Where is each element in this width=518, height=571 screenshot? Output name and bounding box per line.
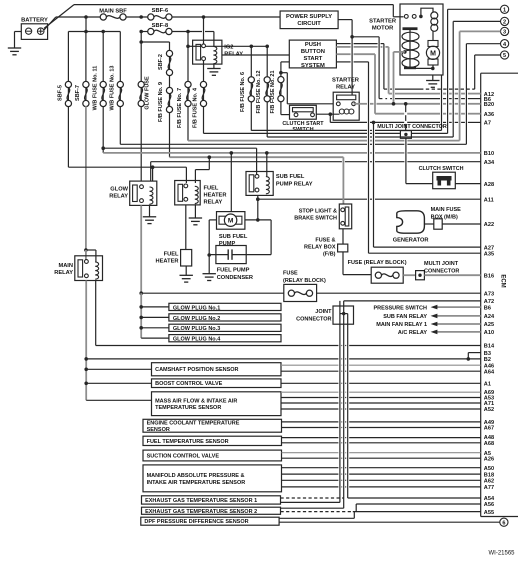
svg-text:SBF-6: SBF-6 <box>152 8 168 14</box>
wire B10 row <box>103 152 367 154</box>
svg-text:F/B FUSE No. 7: F/B FUSE No. 7 <box>177 88 183 128</box>
wire SBF-5 row <box>68 166 186 168</box>
node junction y17 x203 <box>202 15 206 19</box>
svg-text:A27: A27 <box>484 245 494 251</box>
svg-text:A28: A28 <box>484 182 494 188</box>
svg-text:2: 2 <box>503 20 506 26</box>
wire x86 drop <box>85 17 87 32</box>
node connector circle 1 <box>501 5 509 13</box>
wire solenoid to field coil <box>421 8 433 16</box>
sensor BOOST CONTROL VALVE <box>152 379 282 388</box>
svg-text:A56: A56 <box>484 502 494 508</box>
component FUEL HEATER <box>181 250 192 267</box>
node starter motor bottom junction <box>431 67 435 71</box>
fuse SBF-2 <box>166 50 172 56</box>
wire A36 row <box>375 113 404 115</box>
wire sub relay output <box>257 195 259 220</box>
wire main relay contact pin feed <box>85 250 87 260</box>
svg-text:A36: A36 <box>484 112 494 118</box>
svg-text:ENGINE COOLANT TEMPERATURE: ENGINE COOLANT TEMPERATURE <box>147 420 240 426</box>
node connector circle 4 <box>501 40 509 48</box>
svg-text:EXHAUST GAS TEMPERATURE SENSOR: EXHAUST GAS TEMPERATURE SENSOR 2 <box>145 509 257 515</box>
wire push line 1 to circle 5 <box>384 88 387 90</box>
wire F/B box to fuse relay block <box>342 252 344 275</box>
node junction y17 x141 <box>139 15 143 19</box>
node junction pump right <box>256 218 260 222</box>
connector FUSE & RELAY BOX (F/B) <box>338 244 348 252</box>
svg-text:MOTOR: MOTOR <box>372 26 394 32</box>
wire push line 2 <box>336 46 350 48</box>
svg-text:MULTI JOINT CONNECTOR: MULTI JOINT CONNECTOR <box>377 124 447 130</box>
svg-text:GLOW PLUG No.4: GLOW PLUG No.4 <box>173 337 221 343</box>
wire DPF to circle 6 <box>279 521 500 523</box>
svg-text:M: M <box>430 50 436 57</box>
svg-text:A1: A1 <box>484 382 491 388</box>
svg-text:RELAY: RELAY <box>336 85 355 91</box>
wire boost feed <box>86 382 151 384</box>
node junction camshaft feed <box>84 368 88 372</box>
svg-text:SUCTION CONTROL VALVE: SUCTION CONTROL VALVE <box>147 454 220 460</box>
svg-text:HEATER: HEATER <box>156 259 179 265</box>
node ECM bus <box>480 73 482 516</box>
svg-text:BATTERY: BATTERY <box>21 18 48 24</box>
svg-text:B14: B14 <box>484 344 495 350</box>
svg-text:MAIN FUSE: MAIN FUSE <box>431 207 462 213</box>
node junction F/B9 fuel heater branch <box>208 155 212 159</box>
svg-text:A77: A77 <box>484 485 494 491</box>
ground IG2 relay <box>207 69 220 76</box>
svg-text:A24: A24 <box>484 314 495 320</box>
wire F/B6 row to starter case <box>251 129 367 131</box>
relay GLOW RELAY <box>130 181 157 205</box>
wire MJC to circle1 <box>411 132 447 134</box>
connector MULTI JOINT CONNECTOR <box>400 131 411 139</box>
svg-text:A7: A7 <box>484 121 491 127</box>
fuse GLOW FUSE <box>138 81 144 87</box>
relay SUB FUEL PUMP RELAY <box>246 172 273 196</box>
node junction boost feed <box>84 382 88 386</box>
svg-text:RELAY: RELAY <box>54 270 73 276</box>
svg-text:B10: B10 <box>484 151 494 157</box>
wire F/B FUSE No.12 column <box>266 46 268 77</box>
svg-text:GLOW PLUG No.2: GLOW PLUG No.2 <box>173 316 220 322</box>
wire GLOW FUSE column <box>140 42 142 82</box>
wire main relay coil feed <box>86 249 96 251</box>
svg-text:CONNECTOR: CONNECTOR <box>296 317 331 323</box>
wire A11 row <box>258 198 367 200</box>
wire power supply to starter relay <box>338 19 352 21</box>
wire W/B FUSE No.13 column <box>119 32 121 82</box>
svg-text:A34: A34 <box>484 160 495 166</box>
wire A72 row <box>344 300 481 302</box>
wire field coil to motor <box>432 31 434 40</box>
svg-text:F/B FUSE No. 9: F/B FUSE No. 9 <box>158 82 164 122</box>
wire glow relay output <box>140 205 142 293</box>
wire glow bus <box>141 292 284 294</box>
fuse FUSE (RELAY BLOCK) left <box>284 284 317 301</box>
node junction y46.3 x251 <box>250 45 254 49</box>
wire starter relay to solenoid <box>393 52 395 104</box>
wire SUB FAN RELAY row <box>437 315 481 317</box>
svg-text:FUEL: FUEL <box>204 186 219 192</box>
svg-text:A22: A22 <box>484 222 494 228</box>
svg-text:MANIFOLD ABSOLUTE PRESSURE &: MANIFOLD ABSOLUTE PRESSURE & <box>147 473 245 479</box>
svg-text:HEATER: HEATER <box>204 193 227 199</box>
wire IG2 output to push button system <box>222 54 289 56</box>
solenoid plunger and spring <box>409 30 411 68</box>
fuse SBF-6 <box>148 14 154 20</box>
wire condenser feed from B10 row <box>230 153 232 212</box>
wire joint connector drop 2 <box>343 301 345 508</box>
svg-text:A35: A35 <box>484 251 494 257</box>
wire bus y31.5 left <box>68 31 120 33</box>
ground condenser <box>203 274 216 281</box>
fuse W/B FUSE No. 13 <box>117 81 123 87</box>
sensor FUEL TEMPERATURE SENSOR <box>143 436 282 445</box>
ground fuel heater relay <box>189 218 202 225</box>
svg-text:ECM: ECM <box>500 274 506 287</box>
wire SBF-8 row <box>141 31 148 33</box>
wire A55/EGT2 row <box>281 511 352 513</box>
node junction y46.3 x267 <box>265 45 269 49</box>
svg-text:MAIN SBF: MAIN SBF <box>99 9 127 15</box>
svg-text:RELAY: RELAY <box>204 200 223 206</box>
wire A12 row <box>389 93 392 95</box>
wire fuse21 branch to starter relay coil <box>281 72 287 74</box>
node junction B10 sub pump coil <box>265 151 269 155</box>
wire W/B13 row to circle4 <box>120 143 367 145</box>
node connector circle 2 <box>501 17 509 25</box>
svg-text:A10: A10 <box>484 330 494 336</box>
block PUSH BUTTON START SYSTEM <box>289 40 336 68</box>
node junction B20 x405 <box>404 102 408 106</box>
wire DPF to A55 <box>279 517 354 519</box>
node junction B2 left <box>84 357 88 361</box>
wire clutch switch to A28 <box>455 183 480 185</box>
wire F/B12 row to circle2 <box>267 136 367 138</box>
svg-text:RELAY: RELAY <box>109 194 128 200</box>
node connector circle 6 <box>500 518 508 526</box>
node connector circle 3 <box>501 27 509 35</box>
fuse MAIN SBF <box>100 14 106 20</box>
fuse SBF-7 <box>83 81 89 87</box>
node starter solenoid contact <box>419 15 423 19</box>
svg-text:B2: B2 <box>484 357 491 363</box>
node junction y17 x86 <box>84 15 88 19</box>
wire F/B4 row to MJC <box>204 132 368 134</box>
wire camshaft feed <box>86 368 151 370</box>
svg-text:CONNECTOR: CONNECTOR <box>424 268 459 274</box>
wire clutch start switch output <box>316 113 339 115</box>
sensor MANIFOLD ABSOLUTE PRESSURE & INTAKE AIR TEMPERATURE SENSOR <box>143 465 282 492</box>
svg-text:PUSH: PUSH <box>305 42 321 48</box>
node junction main relay feed <box>84 248 88 252</box>
wire power supply to B6 <box>352 36 379 38</box>
wire IG2 coil to ground <box>213 64 215 68</box>
node junction A7/A27 <box>372 121 376 125</box>
relay STARTER RELAY <box>333 92 359 120</box>
svg-text:MAIN: MAIN <box>58 263 73 269</box>
wire B20 to multi joint connector <box>405 104 407 112</box>
fuse F/B FUSE No. 6 <box>248 77 254 83</box>
svg-text:A55: A55 <box>484 510 494 516</box>
svg-text:STARTER: STARTER <box>332 78 360 84</box>
wire generator to main fuse box <box>424 223 433 225</box>
wire A27 drop <box>373 122 375 247</box>
fuse SBF-5 <box>65 81 71 87</box>
component GLOW PLUG No.1 <box>169 303 281 310</box>
node junction B3/B2 <box>467 357 471 361</box>
svg-text:A62: A62 <box>484 479 494 485</box>
fuse F/B FUSE No. 21 <box>278 77 284 83</box>
motor SUB FUEL PUMP <box>217 212 245 230</box>
svg-text:F/B FUSE No. 6: F/B FUSE No. 6 <box>240 72 246 112</box>
motor STARTER MOTOR <box>400 4 443 75</box>
svg-text:A50: A50 <box>484 466 494 472</box>
wire push line 4 <box>336 61 350 63</box>
switch STOP LIGHT & BRAKE SWITCH <box>339 204 351 229</box>
svg-text:GLOW PLUG No.3: GLOW PLUG No.3 <box>173 326 220 332</box>
svg-text:CONDENSER: CONDENSER <box>217 275 253 281</box>
wire fuse21 to clutch start switch <box>281 114 290 116</box>
wire F/B FUSE No.4 column <box>203 17 205 46</box>
node junction y31.5 x188 <box>186 30 190 34</box>
svg-text:JOINT: JOINT <box>315 309 332 315</box>
node junction y42 x141 <box>139 40 143 44</box>
svg-text:A73: A73 <box>484 291 494 297</box>
node connector circle 5 <box>501 51 509 59</box>
svg-text:PRESSURE SWITCH: PRESSURE SWITCH <box>374 305 428 311</box>
svg-text:GLOW PLUG No.1: GLOW PLUG No.1 <box>173 305 220 311</box>
svg-text:A68: A68 <box>484 441 494 447</box>
svg-text:POWER SUPPLY: POWER SUPPLY <box>286 14 332 20</box>
wire glow relay contact feed <box>152 167 154 181</box>
relay MAIN RELAY <box>75 256 103 281</box>
wire F/B9 row to stop light switch <box>170 156 344 158</box>
wire B6 row <box>379 98 382 100</box>
wire fuel heater relay contact feed <box>185 167 187 183</box>
wire A22 row <box>442 223 481 225</box>
svg-text:BUTTON: BUTTON <box>301 49 325 55</box>
svg-text:FUSE (RELAY BLOCK): FUSE (RELAY BLOCK) <box>348 260 407 266</box>
svg-text:SBF-7: SBF-7 <box>75 85 81 101</box>
wire mass air flow feed <box>86 399 151 401</box>
svg-text:BOOST CONTROL VALVE: BOOST CONTROL VALVE <box>155 381 223 387</box>
wire B20 row / starter relay output <box>354 103 367 105</box>
svg-text:SUB FUEL: SUB FUEL <box>219 234 248 240</box>
svg-text:1: 1 <box>503 7 506 13</box>
wire W/B11 row to sub fuel pump relay <box>103 147 256 149</box>
wire main battery cable to starter motor <box>74 4 393 6</box>
wire fuel heater to ground <box>185 266 187 275</box>
fuse F/B FUSE No. 7 <box>185 81 191 87</box>
sensor ENGINE COOLANT TEMPERATURE SENSOR <box>143 419 282 432</box>
wire joint connector drop 3 <box>347 314 349 498</box>
wire EGT1 return <box>281 501 340 503</box>
svg-text:SUB FUEL: SUB FUEL <box>276 174 305 180</box>
node starter solenoid input <box>403 50 407 54</box>
battery <box>21 24 47 40</box>
wire A27 row <box>374 246 481 248</box>
relay IG2 U-IG2 <box>193 40 222 64</box>
svg-text:TEMPERATURE SENSOR: TEMPERATURE SENSOR <box>155 405 221 411</box>
svg-text:5: 5 <box>503 53 506 59</box>
wire B14 row <box>96 345 339 347</box>
connector JOINT CONNECTOR <box>333 306 354 324</box>
node junction W/B11 <box>101 146 105 150</box>
generator GENERATOR <box>397 211 425 233</box>
fuse F/B FUSE No. 4 <box>200 81 206 87</box>
svg-text:SUB FAN RELAY: SUB FAN RELAY <box>383 314 427 320</box>
wire stop light feed <box>342 157 344 204</box>
svg-text:A64: A64 <box>484 369 495 375</box>
motor armature M <box>428 41 438 47</box>
svg-text:INTAKE AIR TEMPERATURE SENSOR: INTAKE AIR TEMPERATURE SENSOR <box>147 480 246 486</box>
node junction clutch switch out <box>329 112 333 116</box>
svg-text:A11: A11 <box>484 197 494 203</box>
svg-text:(F/B): (F/B) <box>323 252 336 258</box>
svg-text:W/B FUSE No. 13: W/B FUSE No. 13 <box>109 66 115 111</box>
wire sub relay contact feed <box>256 148 258 174</box>
node junction y31.5 x103 <box>101 30 105 34</box>
sensor DPF PRESSURE DIFFERENCE SENSOR <box>141 517 279 525</box>
svg-text:EXHAUST GAS TEMPERATURE SENSOR: EXHAUST GAS TEMPERATURE SENSOR 1 <box>145 498 257 504</box>
svg-text:A26: A26 <box>484 456 494 462</box>
node junction B10 condenser branch <box>230 151 234 155</box>
sensor SUCTION CONTROL VALVE <box>143 450 282 461</box>
wire glow plug feeder <box>140 293 142 338</box>
wire A/C RELAY row <box>437 331 481 333</box>
wire F/B FUSE No.7 column <box>187 32 189 47</box>
wire SBF-5 column <box>67 32 69 82</box>
connector MULTI JOINT CONNECTOR 2 <box>416 271 425 280</box>
svg-text:6: 6 <box>502 520 505 526</box>
svg-text:FUEL: FUEL <box>164 252 179 258</box>
fuse W/B FUSE No. 11 <box>100 81 106 87</box>
svg-text:B18: B18 <box>484 472 494 478</box>
ground glow relay <box>143 217 156 224</box>
svg-text:3: 3 <box>503 30 506 36</box>
fuse MAIN FUSE BOX (M/B) <box>434 219 442 229</box>
op-amp n/a - IG2 relay coil feed <box>213 32 215 47</box>
svg-text:CLUTCH SWITCH: CLUTCH SWITCH <box>419 166 464 172</box>
svg-text:FUEL TEMPERATURE SENSOR: FUEL TEMPERATURE SENSOR <box>147 439 229 445</box>
wire A54 row <box>281 497 345 499</box>
svg-text:STARTER: STARTER <box>369 19 397 25</box>
svg-text:SENSOR: SENSOR <box>147 427 170 433</box>
block POWER SUPPLY CIRCUIT <box>280 11 338 29</box>
wire glow relay coil to ground <box>149 205 151 217</box>
component GLOW PLUG No.4 <box>169 335 281 342</box>
svg-text:SBF-8: SBF-8 <box>152 23 168 29</box>
wire push line 3 <box>336 53 350 55</box>
sensor CAMSHAFT POSITION SENSOR <box>152 363 282 376</box>
capacitor FUEL PUMP CONDENSER <box>216 246 246 264</box>
wire sub relay coil feed <box>266 153 268 176</box>
fuse F/B FUSE No. 9 <box>166 87 172 93</box>
svg-text:CAMSHAFT POSITION SENSOR: CAMSHAFT POSITION SENSOR <box>155 367 238 373</box>
svg-text:MAIN FAN RELAY 1: MAIN FAN RELAY 1 <box>376 322 427 328</box>
ground fuel heater <box>180 275 193 282</box>
wire clutch out to A7 row <box>329 114 331 122</box>
wire fuel heater relay coil to ground <box>194 204 196 218</box>
wire fuel heater coil feed <box>208 157 210 169</box>
svg-text:M: M <box>228 218 234 225</box>
wire F/B FUSE No.21 column <box>280 62 282 73</box>
svg-text:SBF-5: SBF-5 <box>58 85 64 101</box>
svg-text:A67: A67 <box>484 426 494 432</box>
wire EGT2 return <box>281 507 344 509</box>
node junction A11 branch <box>256 197 260 201</box>
wire push line 1 <box>336 43 350 45</box>
wire motor bottom to plunger <box>410 67 433 69</box>
wire joint connector drop 1 <box>339 301 341 503</box>
svg-text:GLOW: GLOW <box>110 187 128 193</box>
node junction condenser left <box>207 253 211 257</box>
wire SBF-7 column <box>85 32 87 82</box>
svg-text:W/B FUSE No. 11: W/B FUSE No. 11 <box>92 66 98 111</box>
svg-text:F/B FUSE No. 12: F/B FUSE No. 12 <box>256 70 262 113</box>
svg-text:GENERATOR: GENERATOR <box>393 238 429 244</box>
wire MAIN FAN RELAY 1 row <box>437 323 481 325</box>
ground starter motor <box>426 81 439 88</box>
svg-text:IG2: IG2 <box>224 45 233 51</box>
sensor MASS AIR FLOW & INTAKE AIR TEMPERATURE SENSOR <box>152 392 282 416</box>
svg-text:MASS AIR FLOW & INTAKE AIR: MASS AIR FLOW & INTAKE AIR <box>155 398 237 404</box>
svg-text:(RELAY BLOCK): (RELAY BLOCK) <box>283 278 326 284</box>
wire bus y46.3 <box>188 45 202 47</box>
node junction y31.5 x86 <box>84 30 88 34</box>
svg-text:STOP LIGHT &: STOP LIGHT & <box>299 209 337 215</box>
wire battery positive diagonals <box>44 5 74 29</box>
wire MJC to clutch switch <box>405 138 407 183</box>
svg-text:BOX (M/B): BOX (M/B) <box>431 214 458 220</box>
wire B3 stub <box>468 352 480 354</box>
wire bus B+ y17 <box>56 16 101 18</box>
wire SBF-7 to main relay <box>85 106 87 250</box>
wire pump left <box>209 219 216 221</box>
wire push button left pin to fuse 21 <box>281 61 289 63</box>
wire starter motor case to bus <box>441 75 443 130</box>
node junction y31.5 x141 <box>139 30 143 34</box>
wire A56 jog <box>355 504 357 512</box>
svg-text:B20: B20 <box>484 102 494 108</box>
wire main relay contact output <box>85 281 87 401</box>
node junction B20 x394 <box>392 102 396 106</box>
node junction F/B21 top <box>279 71 283 75</box>
svg-text:F/B FUSE No. 21: F/B FUSE No. 21 <box>270 70 276 113</box>
wire B2 row <box>86 358 338 360</box>
wire A34 row glow relay coil <box>151 161 342 163</box>
fuse FUSE (RELAY BLOCK) right <box>371 267 403 283</box>
wire W/B FUSE No.11 column <box>102 32 104 82</box>
sensor EXHAUST GAS TEMPERATURE SENSOR 2 <box>142 507 281 514</box>
svg-text:GLOW FUSE: GLOW FUSE <box>145 76 151 110</box>
svg-text:FUSE &: FUSE & <box>315 238 335 244</box>
wire F/B7 row to circle3 <box>188 140 367 142</box>
node junction power supply branch <box>350 35 354 39</box>
svg-text:B3: B3 <box>484 351 491 357</box>
wire starter motor to ground <box>432 75 434 81</box>
svg-text:BRAKE SWITCH: BRAKE SWITCH <box>294 216 337 222</box>
svg-text:DPF PRESSURE DIFFERENCE SENSOR: DPF PRESSURE DIFFERENCE SENSOR <box>144 519 248 525</box>
node junction y46.3 x188 <box>186 45 190 49</box>
svg-text:FUEL PUMP: FUEL PUMP <box>217 268 250 274</box>
wire PRESSURE SWITCH row <box>437 306 481 308</box>
ground battery <box>8 48 21 55</box>
svg-text:A52: A52 <box>484 407 494 413</box>
component GLOW PLUG No.3 <box>169 324 281 331</box>
